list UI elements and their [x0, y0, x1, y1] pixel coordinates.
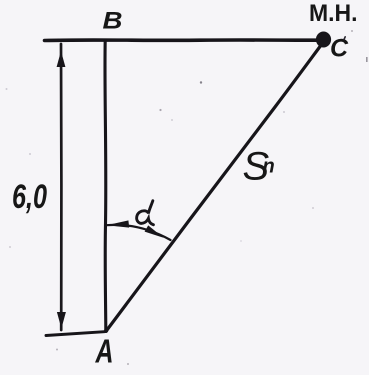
svg-text:М.Н.: М.Н.	[309, 0, 358, 27]
svg-text:n: n	[263, 156, 275, 178]
svg-text:B: B	[103, 8, 123, 35]
svg-text:A: A	[95, 333, 114, 370]
svg-text:C: C	[330, 35, 349, 63]
svg-text:6,0: 6,0	[12, 178, 47, 216]
